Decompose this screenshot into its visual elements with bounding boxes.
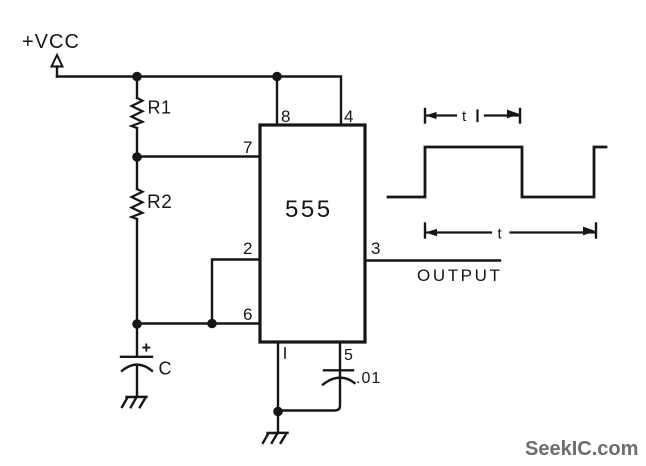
svg-text:6: 6 (243, 305, 252, 324)
svg-text:R1: R1 (148, 98, 172, 118)
node junction dot C top (132, 319, 142, 329)
node junction dot R1 top (132, 72, 142, 82)
wire ground lead (277, 412, 279, 434)
node junction dot pin2 branch (207, 319, 217, 329)
op-amp U1: 555 IC body (260, 125, 365, 342)
dimension t label (498, 226, 503, 243)
svg-text:R2: R2 (147, 192, 172, 213)
dimension t1 left arrowhead (426, 112, 437, 119)
pin 8 label (281, 107, 290, 126)
node junction dot pin7 branch (132, 152, 142, 162)
svg-text:+VCC: +VCC (22, 31, 80, 53)
dimension t1 right arrowhead (507, 110, 520, 119)
svg-text:4: 4 (344, 107, 353, 126)
node +VCC label (22, 31, 80, 53)
svg-text:C: C (159, 359, 172, 379)
pin 1 label (284, 348, 286, 358)
svg-text:SeekIC.com: SeekIC.com (525, 438, 638, 460)
dimension t left tick (424, 224, 426, 238)
dimension t1 label (462, 108, 467, 125)
wire pin 1 down (277, 342, 279, 412)
wire pin 3 output (365, 259, 500, 261)
wire R2 bottom lead (136, 219, 138, 324)
pin 7 label (243, 138, 252, 157)
watermark SeekIC.com (525, 438, 638, 460)
svg-text:5: 5 (344, 347, 353, 364)
svg-text:2: 2 (243, 239, 252, 258)
wire R1 top lead (136, 77, 138, 99)
waveform square wave (388, 147, 606, 197)
pin 4 label (344, 107, 353, 126)
ground below C (122, 397, 147, 407)
svg-text:7: 7 (243, 138, 252, 157)
dimension t right tick (595, 224, 597, 238)
wire top rail to pin 4 (57, 77, 341, 126)
wire R1 bottom lead (136, 128, 138, 157)
dimension t1 left tick (424, 109, 426, 123)
wire pin 5 down (339, 342, 341, 377)
capacitor C (136, 324, 138, 356)
svg-text:555: 555 (285, 196, 333, 223)
wire pin 2 (212, 260, 260, 324)
wire pin 7 (137, 155, 260, 157)
pin 6 label (243, 305, 252, 324)
dimension t line right (511, 231, 595, 233)
resistor R2 (132, 189, 143, 219)
node junction dot pin8 branch (272, 72, 282, 82)
power symbol +VCC arrow (52, 55, 63, 67)
pin 5 label (344, 347, 353, 364)
dimension t line left (427, 231, 491, 233)
svg-text:OUTPUT: OUTPUT (417, 266, 502, 285)
dimension t1 line right (485, 114, 518, 116)
wire to pin 6 (137, 322, 260, 324)
svg-text:t: t (462, 108, 467, 125)
svg-text:.01: .01 (356, 370, 381, 387)
dimension t1 line left (427, 114, 456, 116)
wire pin 8 drop (276, 77, 278, 126)
wire VCC vertical lead (56, 67, 58, 77)
pin 2 label (243, 239, 252, 258)
pin 3 label (371, 239, 380, 258)
dimension t left arrowhead (426, 229, 438, 236)
node junction dot pin1/ground (273, 407, 283, 417)
capacitor C2 .01 (324, 369, 353, 371)
dimension t right arrowhead (583, 227, 596, 236)
svg-text:3: 3 (371, 239, 380, 258)
svg-text:t: t (498, 226, 503, 243)
wire R2 top lead (136, 157, 138, 189)
dimension t1 right tick (519, 109, 521, 123)
resistor R1 (132, 98, 143, 128)
svg-text:8: 8 (281, 107, 290, 126)
ground below pin 1 (263, 433, 288, 443)
